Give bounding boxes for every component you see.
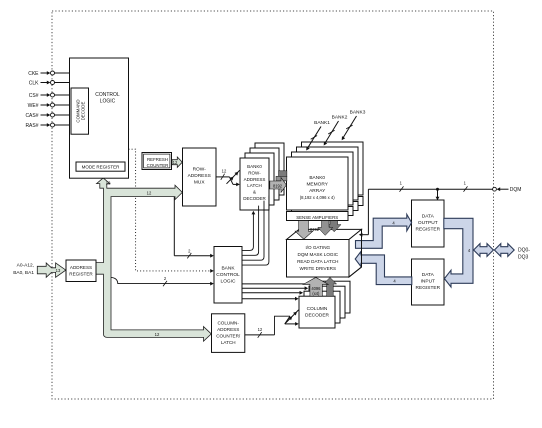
svg-text:13: 13 xyxy=(56,268,61,273)
bank3 row-address latch & decoder (stacked behind) xyxy=(255,143,284,195)
block COMMAND DECODE xyxy=(71,88,89,134)
wire dotted path from CONTROL LOGIC to BANK CONTROL LOGIC xyxy=(129,149,212,271)
svg-text:DECODER: DECODER xyxy=(243,196,266,201)
svg-text:DATA: DATA xyxy=(422,272,435,278)
bank2 row-address latch & decoder (stacked behind) xyxy=(250,148,279,200)
svg-text:LOGIC: LOGIC xyxy=(221,279,236,285)
svg-text:8192: 8192 xyxy=(310,227,320,232)
bank3 memory array (stacked behind) xyxy=(302,142,364,206)
block I/O GATING / DQM MASK LOGIC (3D box) xyxy=(287,229,362,277)
svg-text:I/O GATING: I/O GATING xyxy=(305,245,330,250)
block BANK CONTROL LOGIC xyxy=(214,247,242,304)
blue bidirectional DQ arrow (outer) xyxy=(494,244,514,257)
block DATA INPUT REGISTER xyxy=(412,259,445,305)
svg-text:MEMORY: MEMORY xyxy=(306,182,328,188)
svg-text:DATA: DATA xyxy=(422,214,435,220)
svg-text:12: 12 xyxy=(258,327,263,332)
svg-text:BANK1: BANK1 xyxy=(314,120,330,126)
svg-text:BANK2: BANK2 xyxy=(332,115,348,121)
svg-text:BANK0: BANK0 xyxy=(309,175,325,181)
svg-text:ADDRESS: ADDRESS xyxy=(70,265,92,270)
svg-text:LATCH: LATCH xyxy=(247,183,261,188)
wire row-address mux to bank row-address latch fan (12) xyxy=(216,170,240,186)
svg-text:COMMAND: COMMAND xyxy=(75,99,80,122)
block REFRESH COUNTER (double border) xyxy=(142,153,172,170)
svg-text:COUNTER/: COUNTER/ xyxy=(216,334,241,339)
svg-text:12: 12 xyxy=(155,332,160,337)
svg-text:WE#: WE# xyxy=(28,103,39,109)
bank1 row-address latch & decoder (stacked behind) xyxy=(245,153,274,205)
svg-text:ROW-: ROW- xyxy=(248,170,261,175)
svg-text:READ DATA LATCH: READ DATA LATCH xyxy=(297,259,338,264)
block CONTROL LOGIC xyxy=(70,58,129,178)
svg-text:DQ3: DQ3 xyxy=(518,254,529,260)
svg-text:12: 12 xyxy=(147,191,152,196)
blue bidirectional DQ arrow (inner) xyxy=(474,244,494,257)
address input bus double-chevron arrow into address register xyxy=(37,263,66,277)
svg-text:ADDRESS: ADDRESS xyxy=(244,177,266,182)
bank0 row-address latch & decoder xyxy=(240,158,269,210)
svg-text:CONTROL: CONTROL xyxy=(95,92,120,98)
input pin CLK with buffer circle xyxy=(41,81,71,85)
bus arrow from refresh counter to row-address mux xyxy=(172,157,182,167)
input pin RAS# with buffer circle xyxy=(41,123,71,127)
svg-text:COLUMN: COLUMN xyxy=(307,306,328,312)
bank3 column decoder (stacked behind) xyxy=(314,281,350,313)
blue write data bus data input register to I/O gating xyxy=(355,251,412,284)
block ROW-ADDRESS MUX xyxy=(183,148,217,206)
svg-text:DQM: DQM xyxy=(510,187,522,193)
input pin WE# with buffer circle xyxy=(41,103,71,107)
svg-text:REGISTER: REGISTER xyxy=(416,285,441,291)
bank1 label arrow xyxy=(306,120,330,151)
grey 4096 bus arrows column decoder to I/O gating xyxy=(303,277,336,296)
svg-text:WRITE DRIVERS: WRITE DRIVERS xyxy=(300,266,337,271)
svg-text:(8,192 x 4,096 x 4): (8,192 x 4,096 x 4) xyxy=(300,195,336,200)
block MODE REGISTER xyxy=(76,162,125,171)
block ADDRESS REGISTER xyxy=(66,260,96,282)
svg-text:ADDRESS: ADDRESS xyxy=(188,173,211,179)
wire 2-bit bank address to bank control logic (lower) xyxy=(111,277,214,286)
wire DQM arrow into I/O gating xyxy=(359,233,369,237)
input pin CAS# with buffer circle xyxy=(41,113,71,117)
blue read data bus I/O gating to data output register xyxy=(356,214,412,248)
svg-text:BANK: BANK xyxy=(221,266,235,272)
address bus (green trunk with arrows to control logic, row-address mux, column-address counter) xyxy=(96,178,211,341)
svg-text:OUTPUT: OUTPUT xyxy=(418,220,438,226)
bank2 column decoder (stacked behind) xyxy=(309,286,345,318)
block DATA OUTPUT REGISTER xyxy=(412,200,445,247)
svg-text:DECODE: DECODE xyxy=(81,102,86,121)
I/O gating 3D back edges over buses xyxy=(349,229,362,277)
svg-text:CLK: CLK xyxy=(29,80,39,86)
wire column-address counter to column decoder fan (12) xyxy=(245,310,299,338)
bank0 memory array xyxy=(287,157,349,210)
wire 2-bit bank address to bank control logic (upper) xyxy=(174,197,214,259)
svg-text:ADDRESS: ADDRESS xyxy=(217,327,239,332)
svg-text:INPUT: INPUT xyxy=(421,279,435,285)
block COLUMN-ADDRESS COUNTER/LATCH xyxy=(212,314,245,353)
svg-text:MODE REGISTER: MODE REGISTER xyxy=(82,165,121,170)
svg-text:BANK0: BANK0 xyxy=(247,164,262,169)
svg-text:ROW-: ROW- xyxy=(193,167,207,173)
svg-text:CS#: CS# xyxy=(29,93,39,99)
wire DQM input net xyxy=(368,186,508,234)
svg-text:BA0, BA1: BA0, BA1 xyxy=(13,270,34,276)
grey 8192 bus arrows sense amps to I/O gating xyxy=(295,221,341,240)
svg-text:CAS#: CAS# xyxy=(25,113,38,119)
bank2 label arrow xyxy=(324,115,348,146)
wires bank control logic to column decoders xyxy=(242,282,313,301)
bank1 memory array (stacked behind) xyxy=(292,152,354,216)
svg-text:MUX: MUX xyxy=(194,180,205,186)
svg-text:DQ0-: DQ0- xyxy=(518,247,530,253)
svg-text:12: 12 xyxy=(222,168,227,173)
svg-text:COLUMN-: COLUMN- xyxy=(217,321,239,326)
svg-text:A0-A12,: A0-A12, xyxy=(17,263,34,269)
sense amplifiers strip xyxy=(287,212,349,221)
bank2 memory array (stacked behind) xyxy=(297,147,359,211)
svg-text:COUNTER: COUNTER xyxy=(147,163,169,168)
bank0 column decoder xyxy=(299,296,335,328)
grey 8192 bus arrows row latch to memory array xyxy=(270,171,287,193)
svg-text:DQM MASK LOGIC: DQM MASK LOGIC xyxy=(298,252,339,257)
svg-text:REGISTER: REGISTER xyxy=(69,271,93,276)
blue DQ bus registers to pads xyxy=(444,218,473,287)
svg-text:SENSE AMPLIFIERS: SENSE AMPLIFIERS xyxy=(296,215,338,220)
svg-text:DECODER: DECODER xyxy=(305,313,330,319)
svg-text:LATCH: LATCH xyxy=(221,340,236,345)
svg-text:BANK3: BANK3 xyxy=(350,109,366,115)
svg-text:12: 12 xyxy=(173,160,178,165)
input pin CS# with buffer circle xyxy=(41,93,71,97)
svg-text:REFRESH: REFRESH xyxy=(147,157,168,162)
chip boundary (dashed border) xyxy=(52,11,494,399)
wires bank control logic to row-address latches xyxy=(242,196,269,266)
bank3 label arrow xyxy=(342,109,366,140)
svg-text:REGISTER: REGISTER xyxy=(416,227,441,233)
bank1 column decoder (stacked behind) xyxy=(304,291,340,323)
svg-text:ARRAY: ARRAY xyxy=(309,188,326,194)
svg-text:LOGIC: LOGIC xyxy=(100,99,116,105)
svg-text:CONTROL: CONTROL xyxy=(216,272,240,278)
svg-text:8192: 8192 xyxy=(273,183,283,188)
svg-text:RAS#: RAS# xyxy=(25,123,38,129)
svg-text:12: 12 xyxy=(106,181,111,186)
svg-text:&: & xyxy=(253,190,256,195)
input pin CKE with buffer circle xyxy=(41,71,71,75)
all text labels xyxy=(13,71,530,345)
svg-text:CKE: CKE xyxy=(28,71,39,77)
svg-text:(x4): (x4) xyxy=(312,291,320,296)
